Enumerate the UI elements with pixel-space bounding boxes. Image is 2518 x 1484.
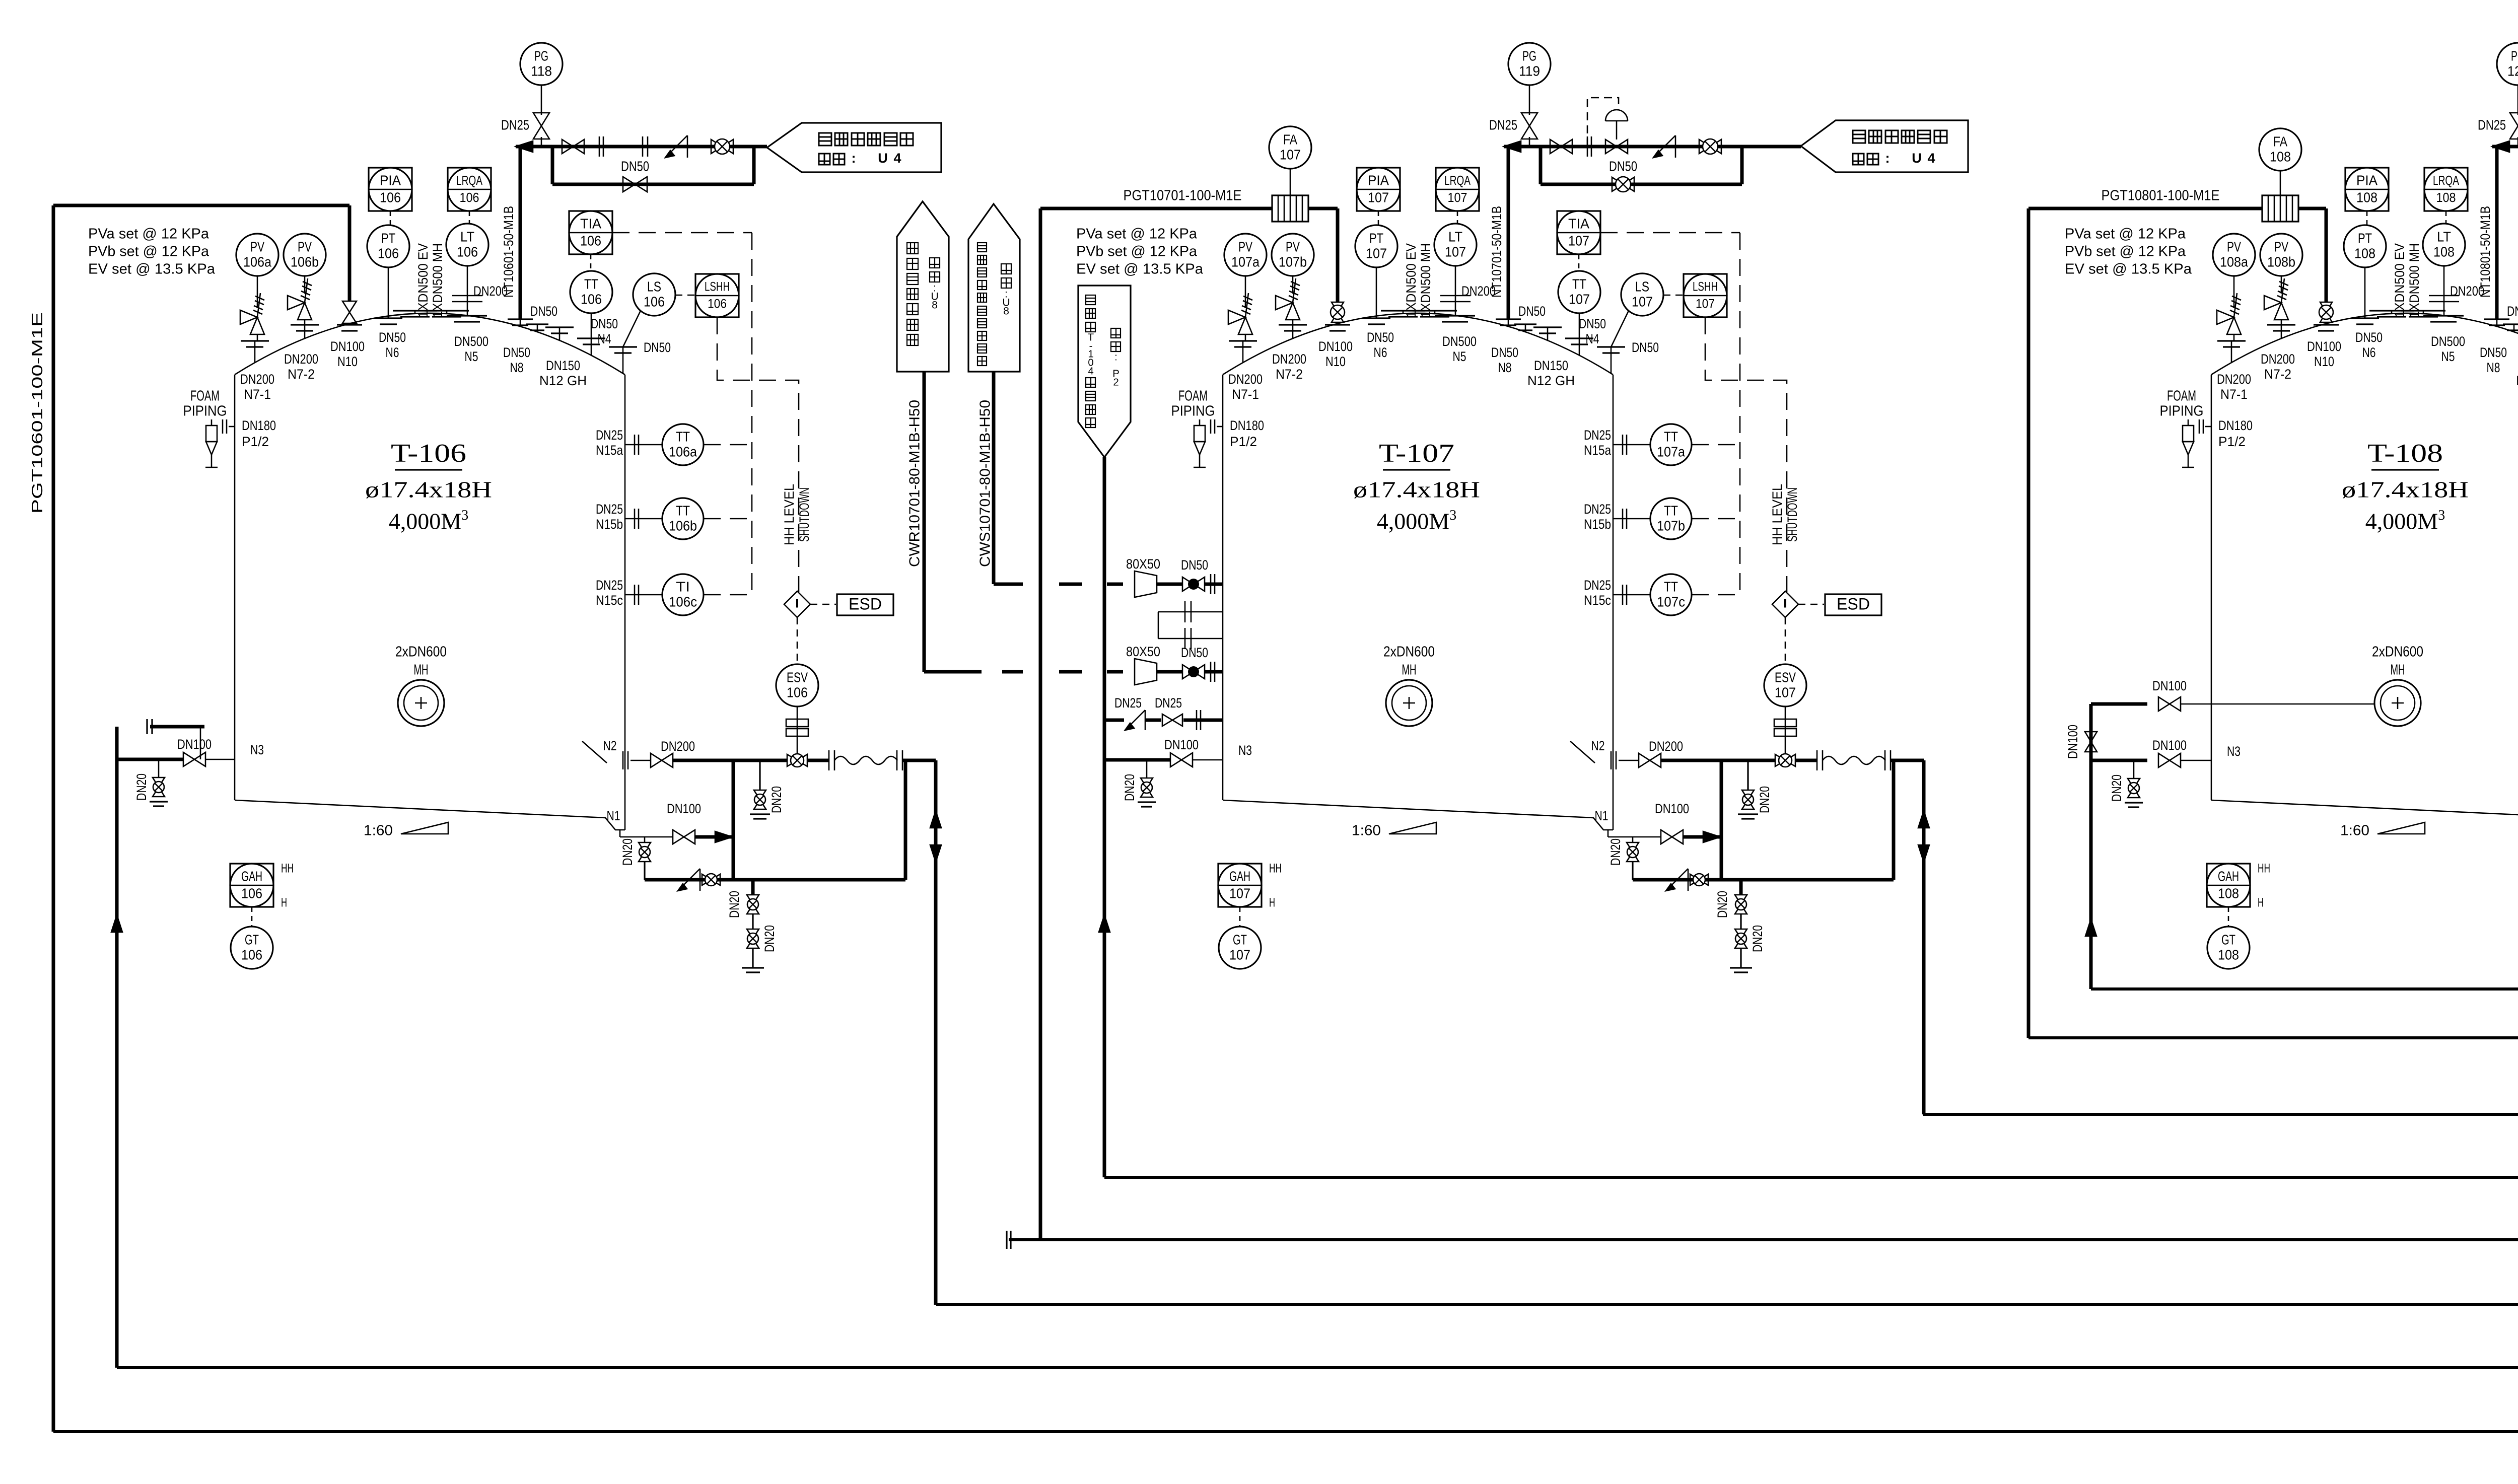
svg-text:DN20: DN20 [762,925,777,952]
svg-text:DN100: DN100 [2152,738,2187,753]
svg-text:DN100: DN100 [2307,339,2341,354]
svg-text::: : [1114,351,1117,363]
svg-text:107: 107 [1632,294,1653,309]
svg-text:108: 108 [2218,885,2239,901]
svg-text:PVb set @ 12 KPa: PVb set @ 12 KPa [2065,244,2186,260]
svg-text:DN50: DN50 [1609,158,1637,174]
svg-text:ESV: ESV [1775,669,1796,685]
svg-text::: : [1885,151,1890,166]
svg-text:I: I [794,597,800,610]
svg-text:HH LEVEL: HH LEVEL [1770,484,1785,545]
svg-text:108: 108 [2436,190,2456,205]
svg-text:PIA: PIA [2356,172,2377,188]
svg-text:2xDN600: 2xDN600 [1383,644,1435,660]
svg-text:DN200: DN200 [1272,351,1306,367]
svg-text:106: 106 [380,189,401,205]
svg-text:TT: TT [1572,276,1586,292]
svg-text:DN100: DN100 [2152,678,2187,693]
svg-text:PVa set @ 12 KPa: PVa set @ 12 KPa [1076,226,1198,242]
svg-text:PT: PT [381,230,395,246]
svg-text:T-106: T-106 [391,439,466,468]
svg-text:DN200: DN200 [2217,372,2251,387]
svg-text:DN100: DN100 [2065,725,2080,759]
svg-text:107: 107 [1568,233,1589,248]
svg-text:107: 107 [1696,297,1715,311]
svg-text:CWS10701-80-M1B-H50: CWS10701-80-M1B-H50 [977,400,994,567]
svg-text:106: 106 [241,885,262,901]
svg-text:NT10801-50-M1B: NT10801-50-M1B [2478,206,2493,298]
svg-text:DN100: DN100 [1318,339,1353,354]
svg-text:8: 8 [932,299,938,311]
svg-text:2xDN600: 2xDN600 [2372,644,2423,660]
svg-text:DN25: DN25 [1489,117,1517,132]
svg-text:4,000M3: 4,000M3 [1377,508,1456,534]
svg-text:PIA: PIA [1368,172,1389,188]
svg-text:107: 107 [1448,190,1467,205]
svg-text:DN50: DN50 [2507,304,2518,319]
svg-text:4: 4 [893,151,901,166]
svg-text:N6: N6 [386,345,399,360]
svg-text:DN50: DN50 [621,158,649,174]
svg-text:1:60: 1:60 [1352,823,1381,839]
svg-text:DN20: DN20 [1715,891,1730,918]
svg-text:SHUTDOWN: SHUTDOWN [797,487,812,542]
svg-text:DN25: DN25 [501,117,529,132]
svg-text:DN150: DN150 [546,358,580,373]
svg-text:DN200: DN200 [240,372,274,387]
svg-text:DN180: DN180 [1230,418,1264,433]
svg-text:GAH: GAH [1229,868,1250,884]
svg-text:LRQA: LRQA [2433,173,2459,188]
svg-text:EV set @ 13.5 KPa: EV set @ 13.5 KPa [2065,261,2192,277]
svg-text:N5: N5 [2441,349,2455,364]
svg-text:106b: 106b [669,518,697,533]
svg-text:P1/2: P1/2 [2218,434,2246,449]
svg-text:TT: TT [1664,429,1678,444]
svg-text:N15c: N15c [596,593,623,608]
svg-text:DN50: DN50 [1491,345,1518,360]
svg-text:GT: GT [2221,932,2235,947]
svg-text:N4: N4 [598,331,611,346]
svg-text:DN50: DN50 [503,345,530,360]
svg-text:N6: N6 [2362,345,2376,360]
svg-text:PT: PT [2358,230,2372,246]
svg-text:DN20: DN20 [1757,786,1772,813]
svg-text:N3: N3 [2227,744,2241,759]
svg-text:106: 106 [460,190,479,205]
svg-text:DN25: DN25 [596,502,623,517]
svg-text:DN50: DN50 [644,340,671,355]
svg-text:I: I [1782,597,1788,610]
svg-text:HH LEVEL: HH LEVEL [782,484,797,545]
svg-text:107: 107 [1569,291,1590,307]
svg-text:T-108: T-108 [2367,439,2443,468]
svg-text:106: 106 [644,294,665,309]
svg-text:4: 4 [1927,151,1935,166]
svg-text:107b: 107b [1657,518,1685,533]
svg-text:ø17.4x18H: ø17.4x18H [1353,477,1480,503]
svg-text:DN50: DN50 [1579,316,1606,331]
svg-text:1XDN500 MH: 1XDN500 MH [430,243,445,318]
svg-text:DN500: DN500 [2431,334,2465,349]
svg-text:2: 2 [1113,377,1118,388]
svg-text:106: 106 [241,947,262,962]
svg-text:DN20: DN20 [2109,774,2124,802]
svg-text:TI: TI [676,579,690,594]
svg-text:N7-2: N7-2 [288,367,315,382]
svg-text:PVb set @ 12 KPa: PVb set @ 12 KPa [88,244,209,260]
svg-text:107: 107 [1775,684,1796,700]
svg-text:4,000M3: 4,000M3 [389,508,468,534]
svg-text:PV: PV [250,239,264,254]
svg-text:N7-2: N7-2 [1276,367,1303,382]
svg-text:DN50: DN50 [2355,330,2383,345]
svg-text:N2: N2 [603,738,617,753]
svg-text:8: 8 [1003,305,1009,317]
svg-text:1XDN500 EV: 1XDN500 EV [415,243,431,318]
svg-text:N12 GH: N12 GH [1527,373,1575,388]
svg-text:GT: GT [1233,932,1247,947]
svg-text:1XDN500 EV: 1XDN500 EV [1404,243,1419,318]
svg-text:107c: 107c [1657,594,1685,609]
svg-text:N12 GH: N12 GH [539,373,587,388]
svg-text:4: 4 [1088,366,1093,377]
svg-text:N6: N6 [1374,345,1387,360]
svg-text:DN100: DN100 [330,339,365,354]
svg-text:108: 108 [2433,244,2455,259]
svg-text:N10: N10 [1325,354,1346,369]
svg-text:118: 118 [531,63,552,79]
svg-text:108: 108 [2270,149,2291,164]
svg-text:DN180: DN180 [242,418,276,433]
svg-text:FA: FA [2273,133,2287,149]
svg-text:DN200: DN200 [661,739,695,754]
svg-text:N12 GH: N12 GH [2516,373,2518,388]
svg-text:DN50: DN50 [591,316,618,331]
svg-text:N4: N4 [1586,331,1599,346]
svg-text:DN20: DN20 [1608,838,1623,866]
svg-text:N15c: N15c [1584,593,1611,608]
svg-text:1XDN500 MH: 1XDN500 MH [1418,243,1433,318]
svg-text:DN150: DN150 [1534,358,1568,373]
svg-text:MH: MH [1402,662,1417,678]
svg-text:HH: HH [2258,862,2270,876]
svg-text:GAH: GAH [2218,868,2239,884]
svg-text:LT: LT [460,229,474,244]
svg-text:DN100: DN100 [1164,737,1199,752]
svg-text:LT: LT [2437,229,2451,244]
svg-text:107: 107 [1445,244,1466,259]
svg-text:H: H [1269,896,1275,910]
svg-text:LSHH: LSHH [1693,280,1718,294]
svg-text:106c: 106c [669,594,697,609]
svg-text:LRQA: LRQA [1444,173,1471,188]
svg-text:N10: N10 [2314,354,2334,369]
svg-text:NT10701-50-M1B: NT10701-50-M1B [1489,206,1504,298]
svg-text:PG: PG [534,48,548,63]
svg-text:DN100: DN100 [1655,801,1689,816]
svg-text:LSHH: LSHH [705,280,730,294]
svg-text:106: 106 [708,297,727,311]
svg-text:PV: PV [2274,239,2288,254]
svg-text:HH: HH [281,862,294,876]
svg-text:DN25: DN25 [2478,117,2506,132]
svg-text:DN180: DN180 [2218,418,2253,433]
svg-text:DN50: DN50 [379,330,406,345]
svg-text:106: 106 [787,684,808,700]
svg-text:1XDN500 MH: 1XDN500 MH [2407,243,2422,318]
svg-text:PG: PG [1522,48,1536,63]
svg-text:DN50: DN50 [1518,304,1546,319]
svg-text:107: 107 [1368,189,1389,205]
svg-text:FA: FA [1283,131,1297,147]
svg-text:PVb set @ 12 KPa: PVb set @ 12 KPa [1076,244,1198,260]
svg-text:TT: TT [1664,503,1678,518]
svg-text:DN20: DN20 [769,786,784,813]
svg-text:DN25: DN25 [1584,578,1611,593]
svg-text:DN20: DN20 [134,773,149,801]
svg-text:106: 106 [580,233,601,248]
svg-text:PIA: PIA [380,172,401,188]
svg-text:LS: LS [647,278,661,294]
svg-text:TIA: TIA [580,216,601,231]
svg-text:H: H [2258,896,2264,910]
svg-text:N5: N5 [465,349,478,364]
svg-text:N3: N3 [250,742,264,757]
svg-text:106: 106 [378,245,399,261]
svg-text:DN20: DN20 [620,838,635,866]
svg-text:MH: MH [2391,662,2405,678]
svg-text:DN50: DN50 [1632,340,1659,355]
svg-text:DN20: DN20 [1122,774,1137,801]
svg-text:DN50: DN50 [1181,557,1208,573]
svg-text:N3: N3 [1238,743,1252,758]
svg-text:DN100: DN100 [667,801,701,816]
svg-text:80X50: 80X50 [1126,644,1160,659]
svg-text:MH: MH [414,662,429,678]
svg-text:PIPING: PIPING [183,403,227,419]
svg-text:1:60: 1:60 [2340,823,2369,839]
svg-text:DN200: DN200 [2261,351,2295,367]
svg-text:4,000M3: 4,000M3 [2365,508,2445,534]
svg-text:N8: N8 [1498,360,1512,375]
svg-text:DN500: DN500 [454,334,488,349]
svg-text:107: 107 [1229,885,1250,901]
svg-text:TT: TT [1664,579,1678,594]
svg-text:N15a: N15a [1584,443,1612,458]
svg-text:CWR10701-80-M1B-H50: CWR10701-80-M1B-H50 [907,400,923,567]
svg-text:ESD: ESD [1837,595,1870,613]
svg-text:GAH: GAH [241,868,262,884]
svg-text:DN25: DN25 [1114,695,1142,711]
svg-text:N8: N8 [2487,360,2500,375]
svg-text:108: 108 [2218,947,2239,962]
svg-text:U: U [878,151,888,166]
svg-text:N5: N5 [1453,349,1466,364]
svg-text:FOAM: FOAM [2167,388,2196,404]
svg-text:N7-2: N7-2 [2264,367,2291,382]
svg-text:PV: PV [298,239,312,254]
svg-text:PT: PT [1369,230,1383,246]
svg-text:N7-1: N7-1 [2220,387,2248,402]
svg-text:ESD: ESD [849,595,882,613]
svg-text:N1: N1 [1595,808,1608,823]
svg-text:DN500: DN500 [1442,334,1477,349]
svg-text::: : [852,151,856,166]
svg-text:PG: PG [2511,48,2518,63]
svg-text:PV: PV [1238,239,1252,254]
svg-text:106: 106 [581,291,602,307]
svg-text:DN50: DN50 [530,304,557,319]
svg-text:DN20: DN20 [727,891,742,918]
svg-text:LS: LS [1635,278,1649,294]
svg-text:PVa set @ 12 KPa: PVa set @ 12 KPa [2065,226,2186,242]
svg-text:DN100: DN100 [177,737,212,752]
svg-text:PGT10601-100-M1E: PGT10601-100-M1E [29,312,46,514]
svg-text:NT10601-50-M1B: NT10601-50-M1B [501,206,516,298]
svg-text:TT: TT [676,429,690,444]
svg-text:FOAM: FOAM [1178,388,1208,404]
svg-text:108: 108 [2356,189,2377,205]
svg-text:108a: 108a [2220,254,2248,269]
svg-text:P1/2: P1/2 [1230,434,1257,449]
svg-text:107: 107 [1280,147,1301,162]
svg-text:U: U [1912,151,1922,166]
svg-text:DN25: DN25 [1584,502,1611,517]
svg-text:107: 107 [1366,245,1387,261]
svg-text:107b: 107b [1279,254,1307,269]
svg-text:1:60: 1:60 [364,823,393,839]
svg-text:ESV: ESV [787,669,808,685]
svg-text:107: 107 [1229,947,1250,962]
svg-text:N7-1: N7-1 [1232,387,1259,402]
svg-text:PV: PV [1286,239,1300,254]
svg-text:PIPING: PIPING [2160,403,2204,419]
svg-text:106a: 106a [243,254,271,269]
svg-text:TIA: TIA [1568,216,1589,231]
svg-text:PGT10801-100-M1E: PGT10801-100-M1E [2102,188,2220,204]
svg-text:ø17.4x18H: ø17.4x18H [2342,477,2469,503]
svg-text:TT: TT [676,503,690,518]
svg-text:N15b: N15b [596,517,623,532]
svg-text:2xDN600: 2xDN600 [395,644,447,660]
svg-text:DN25: DN25 [596,578,623,593]
svg-text:DN25: DN25 [1155,695,1182,711]
svg-text:DN20: DN20 [1750,925,1765,952]
svg-text:LT: LT [1448,229,1462,244]
svg-text:80X50: 80X50 [1126,556,1160,572]
svg-text:107a: 107a [1657,444,1685,459]
svg-text:108: 108 [2354,245,2375,261]
svg-text:N15a: N15a [596,443,623,458]
svg-text:P1/2: P1/2 [242,434,269,449]
svg-text:DN200: DN200 [284,351,318,367]
svg-text:PIPING: PIPING [1171,403,1215,419]
svg-text:N15b: N15b [1584,517,1611,532]
svg-text:GT: GT [245,932,259,947]
svg-text:T-107: T-107 [1379,439,1454,468]
svg-text:ø17.4x18H: ø17.4x18H [365,477,492,503]
svg-text:N1: N1 [607,808,620,823]
svg-text:107a: 107a [1231,254,1260,269]
svg-text:N10: N10 [337,354,358,369]
svg-text:PGT10701-100-M1E: PGT10701-100-M1E [1124,188,1242,204]
svg-text:N2: N2 [1591,738,1605,753]
svg-text:HH: HH [1269,862,1282,876]
svg-text:EV set @ 13.5 KPa: EV set @ 13.5 KPa [1076,261,1204,277]
svg-text:DN50: DN50 [2480,345,2507,360]
svg-text:EV set @ 13.5 KPa: EV set @ 13.5 KPa [88,261,216,277]
svg-text:N8: N8 [510,360,524,375]
svg-text:108b: 108b [2267,254,2295,269]
svg-text:FOAM: FOAM [190,388,220,404]
svg-text:DN25: DN25 [1584,428,1611,443]
svg-text:1XDN500 EV: 1XDN500 EV [2392,243,2407,318]
svg-text:PV: PV [2227,239,2241,254]
svg-text:PVa set @ 12 KPa: PVa set @ 12 KPa [88,226,209,242]
svg-text:SHUTDOWN: SHUTDOWN [1785,487,1800,542]
svg-text:TT: TT [584,276,598,292]
svg-text:106b: 106b [291,254,319,269]
svg-text:DN200: DN200 [1228,372,1263,387]
svg-text:DN200: DN200 [1649,739,1683,754]
svg-text:H: H [281,896,287,910]
svg-text:DN50: DN50 [1367,330,1394,345]
svg-text:120: 120 [2507,63,2518,79]
svg-text:N7-1: N7-1 [244,387,271,402]
svg-text:LRQA: LRQA [456,173,482,188]
svg-text:DN25: DN25 [596,428,623,443]
svg-text:119: 119 [1519,63,1540,79]
svg-text:106: 106 [457,244,478,259]
svg-text:106a: 106a [669,444,697,459]
